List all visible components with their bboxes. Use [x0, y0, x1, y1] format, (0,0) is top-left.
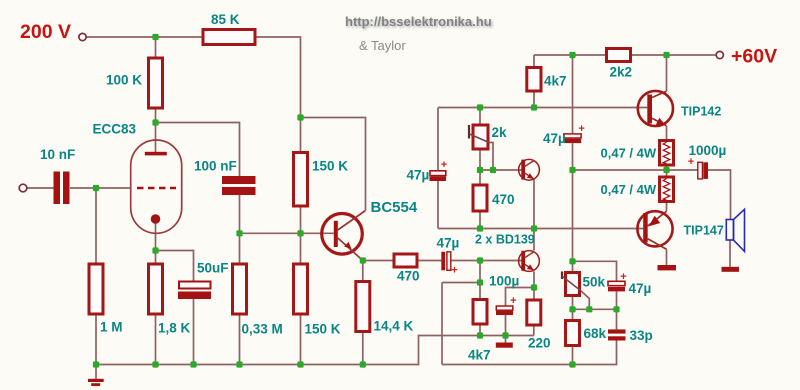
wire input to grid — [27, 187, 132, 189]
svg-text:2k2: 2k2 — [610, 65, 633, 80]
wire 47u top column — [572, 55, 574, 170]
svg-text:ECC83: ECC83 — [93, 122, 137, 137]
svg-text:+60V: +60V — [731, 46, 777, 68]
wire BD139 column — [533, 180, 535, 301]
capacitor 100nF — [222, 176, 256, 195]
svg-text:2 x BD139: 2 x BD139 — [475, 233, 535, 247]
svg-text:68k: 68k — [584, 326, 607, 341]
junction at 480,170 — [477, 167, 483, 173]
svg-text:TIP147: TIP147 — [684, 224, 724, 238]
junction at 155.5,122.5 — [152, 119, 158, 125]
wire left return column — [441, 283, 443, 365]
svg-text:+: + — [451, 265, 457, 277]
junction at 572.5,364.5 — [569, 361, 575, 367]
junction at 300.5,364.5 — [297, 361, 303, 367]
wire 100nF bottom to base node — [239, 195, 241, 233]
svg-text:& Taylor: & Taylor — [359, 38, 406, 53]
transistor BD139 second — [519, 251, 540, 272]
junction at 300.5,117.5 — [297, 114, 303, 120]
tube ECC83 — [131, 140, 182, 233]
junction at 480,107.5 — [477, 104, 483, 110]
wire 100u net — [506, 288, 535, 343]
svg-text:2k: 2k — [492, 125, 508, 140]
svg-text:14,4 K: 14,4 K — [374, 319, 414, 334]
wire top row to TIP142 base — [438, 107, 647, 109]
junction at 493,170 — [490, 167, 496, 173]
wire 1M stubs — [95, 188, 97, 365]
svg-text:10 nF: 10 nF — [40, 147, 75, 162]
junction at 96,188 — [93, 185, 99, 191]
junction at 534,228.5 — [531, 225, 537, 231]
terminal 200V — [79, 33, 86, 40]
junction at 572.5,55 — [569, 52, 575, 58]
svg-text:47µ: 47µ — [543, 131, 566, 146]
svg-text:47µ: 47µ — [437, 236, 460, 251]
wire speaker to ground — [729, 240, 731, 267]
wire BD139-1 base — [480, 169, 522, 171]
resistor 0,33M — [233, 264, 247, 314]
capacitor 47u coupling — [441, 252, 451, 270]
svg-text:http://bsselektronika.hu: http://bsselektronika.hu — [345, 14, 492, 29]
resistor 150K first — [294, 153, 308, 207]
resistor 68k — [566, 321, 580, 346]
junction at 300.5,233.3 — [297, 230, 303, 236]
wire feedback column — [572, 170, 574, 365]
ground main — [88, 365, 104, 387]
resistor 470 vertical — [473, 185, 487, 211]
svg-text:150 K: 150 K — [312, 159, 348, 174]
svg-text:200 V: 200 V — [20, 21, 71, 43]
wire 1,8K bottom — [155, 314, 157, 365]
resistor 1,8K — [149, 264, 163, 314]
junction at 505.5,335.5 — [502, 332, 508, 338]
speaker — [726, 209, 744, 251]
wire TIP147 collector to ground — [666, 249, 668, 265]
junction at 362.8,260.5 — [360, 257, 366, 263]
junction at 666.5,55 — [663, 52, 669, 58]
wire feedback row — [573, 308, 617, 310]
capacitor 47u top right — [564, 134, 581, 143]
capacitor 10nF — [54, 172, 70, 205]
wire 60V rail — [534, 54, 716, 56]
junction at 155.5,364.5 — [152, 361, 158, 367]
junction at 480,260.5 — [477, 257, 483, 263]
junction at 193.5,364.5 — [190, 361, 196, 367]
svg-text:50k: 50k — [583, 275, 606, 290]
wire 0,33M stubs — [239, 233, 241, 364]
svg-text:47µ: 47µ — [407, 168, 430, 183]
wire node to BC554 collector — [301, 118, 366, 211]
wire 85K to corner down to node — [255, 37, 301, 118]
wire 100K stubs — [155, 37, 157, 123]
wire 1000u to speaker — [708, 170, 731, 220]
svg-text:4k7: 4k7 — [544, 74, 567, 89]
transistor BD139 first — [519, 159, 540, 180]
wire 47u to 33p — [616, 292, 618, 330]
transistor Q1 BC554 — [322, 211, 366, 261]
wire ground rail bottom — [96, 336, 534, 365]
junction at 239.5,233.3 — [236, 230, 242, 236]
wire 0,47 to TIP147 emitter — [666, 202, 668, 212]
svg-text:33p: 33p — [630, 328, 653, 343]
svg-text:+: + — [510, 295, 516, 307]
svg-text:220: 220 — [528, 336, 551, 351]
junction at 589.3,309.3 — [586, 306, 592, 312]
junction at 572.5,170 — [569, 167, 575, 173]
resistor 0,47/4W bottom — [660, 177, 674, 202]
svg-text:+: + — [620, 271, 626, 283]
ground TIP147 — [658, 265, 677, 270]
junction at 155.5,250.5 — [152, 247, 158, 253]
wire 220 bottom stub — [533, 325, 535, 336]
svg-text:50uF: 50uF — [197, 261, 229, 276]
svg-text:85 K: 85 K — [211, 12, 240, 27]
wire feedback to 47u — [573, 261, 617, 281]
svg-text:100 K: 100 K — [106, 73, 142, 88]
resistor 220 — [527, 300, 541, 325]
junction at 616.5,309.3 — [613, 306, 619, 312]
wire BC554 base — [240, 232, 334, 234]
junction at 239.5,364.5 — [236, 361, 242, 367]
junction at 534,287.5 — [531, 284, 537, 290]
wire cathode down — [155, 223, 157, 265]
junction at 480,228.5 — [477, 225, 483, 231]
junction at 480,335.5 — [477, 332, 483, 338]
transistor Q4 TIP147 — [637, 211, 672, 249]
wire BC554 emitter node — [363, 261, 394, 365]
resistor 0,47/4W top — [660, 141, 674, 166]
ground speaker — [722, 267, 740, 272]
wire 2k wiper — [489, 143, 493, 171]
transistor Q3 TIP142 — [638, 91, 673, 126]
wire 50uF bottom — [193, 299, 195, 365]
wire anode to 100nF top — [156, 123, 240, 177]
resistor 100K — [149, 58, 163, 108]
junction at 666.5,170 — [663, 167, 669, 173]
wire between 0,47 resistors — [666, 165, 668, 177]
resistor 2k2 — [607, 49, 631, 62]
junction at 572.5,309.3 — [569, 306, 575, 312]
svg-text:150 K: 150 K — [305, 322, 341, 337]
svg-text:4k7: 4k7 — [468, 348, 491, 363]
svg-text:+: + — [688, 156, 694, 168]
svg-text:BC554: BC554 — [371, 199, 418, 216]
wire cathode to 50uF — [156, 251, 194, 282]
wire bottom right return — [442, 341, 617, 365]
wire 150K-2 stubs — [300, 233, 302, 364]
resistor 85K — [203, 30, 255, 45]
svg-text:47µ: 47µ — [629, 281, 652, 296]
capacitor 1000u — [698, 162, 708, 179]
capacitor 47u driver input — [430, 171, 447, 181]
wire output row — [573, 169, 698, 171]
junction at 362.8,364.5 — [360, 361, 366, 367]
svg-text:0,47 / 4W: 0,47 / 4W — [601, 182, 657, 197]
wire 150K stubs — [300, 118, 302, 234]
terminal +60V — [716, 51, 723, 58]
resistor 14,4K — [356, 282, 370, 332]
trimmer 50k — [562, 272, 581, 296]
wire 50k wiper — [581, 291, 590, 310]
resistor 4k7 top — [527, 68, 541, 92]
wire 47u cap to BD139 base — [451, 260, 522, 262]
ground 100u — [496, 343, 513, 348]
resistor 470 horizontal — [394, 254, 417, 267]
svg-text:100 nF: 100 nF — [194, 159, 237, 174]
trimmer 2k — [469, 125, 489, 149]
svg-text:470: 470 — [397, 269, 420, 284]
wire TIP142 collector — [666, 55, 668, 91]
junction at 155.5,37 — [152, 34, 158, 40]
wire 200V rail left — [86, 36, 203, 38]
svg-text:100µ: 100µ — [489, 274, 519, 289]
wire anode stub — [155, 123, 157, 153]
terminal input — [19, 184, 27, 192]
svg-text:470: 470 — [492, 192, 515, 207]
wire TIP142 emitter — [666, 126, 668, 141]
svg-text:0,47 / 4W: 0,47 / 4W — [601, 146, 657, 161]
svg-text:1,8 K: 1,8 K — [158, 321, 191, 336]
capacitor 50uF — [178, 282, 211, 300]
svg-text:1 M: 1 M — [100, 320, 123, 335]
wire node to left column — [442, 282, 480, 284]
capacitor 100u — [496, 306, 513, 315]
capacitor 33p — [608, 329, 626, 340]
wire 2k stubs — [479, 108, 481, 229]
capacitor 47u feedback — [608, 281, 625, 291]
svg-text:0,33 M: 0,33 M — [242, 322, 283, 337]
wire 4k7 stubs — [479, 261, 481, 336]
svg-text:+: + — [441, 159, 447, 171]
wire 470 to 47u cap — [417, 260, 441, 262]
resistor 4k7 bottom — [473, 300, 487, 325]
junction at 480,282.5 — [477, 279, 483, 285]
resistor 1M — [89, 264, 103, 314]
wire driver row to TIP147 base — [438, 228, 643, 230]
junction at 96,364.5 — [93, 361, 99, 367]
junction at 572.5,261.3 — [569, 258, 575, 264]
svg-text:+: + — [578, 123, 584, 135]
resistor 150K second — [294, 264, 308, 314]
wire left column 47u — [437, 108, 439, 229]
wire 4k7-1 stubs — [533, 55, 535, 108]
svg-text:TIP142: TIP142 — [681, 105, 721, 119]
junction at 534,107.5 — [531, 104, 537, 110]
